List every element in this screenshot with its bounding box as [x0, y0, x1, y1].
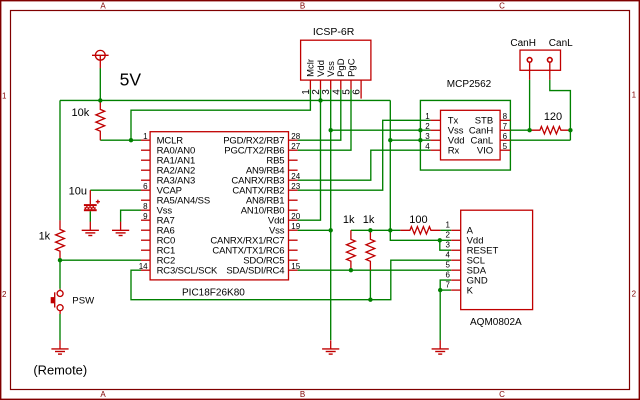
- ground (capacitor): [89, 222, 91, 231]
- PIC right pin row 13 SDO/RC5: [289, 259, 298, 261]
- svg-text:1k: 1k: [343, 214, 355, 226]
- svg-text:1k: 1k: [363, 214, 375, 226]
- svg-text:100: 100: [409, 214, 427, 226]
- svg-text:23: 23: [291, 182, 300, 191]
- PIC left pin row 1 MCLR: [141, 139, 150, 141]
- wire SDA net: [298, 269, 452, 271]
- node AQM K: [438, 288, 442, 292]
- svg-text:15: 15: [291, 262, 300, 271]
- svg-text:10u: 10u: [69, 185, 87, 197]
- node CanH: [527, 128, 531, 132]
- svg-text:A: A: [100, 390, 106, 399]
- PIC left pin row 2 RA0/AN0: [141, 149, 150, 151]
- PIC left pin row 11 RC0: [141, 239, 150, 241]
- svg-text:2: 2: [632, 290, 637, 299]
- PIC right pin row 1 PGD/RX2/RB7: [289, 139, 298, 141]
- MCP left pin 2 Vss: [431, 129, 441, 131]
- node RC2/PSW: [58, 258, 62, 262]
- IC U MCP2562: [441, 110, 501, 160]
- ICSP pin 6: [360, 80, 362, 99]
- svg-text:PgC: PgC: [346, 58, 357, 77]
- PIC right pin row 5 CANRX/RB3: [289, 179, 298, 181]
- wire PIC pin23 to MCP Tx: [298, 120, 431, 190]
- svg-text:8: 8: [143, 202, 148, 211]
- MCP right pin 5 VIO: [500, 149, 510, 151]
- svg-text:6: 6: [352, 89, 363, 95]
- svg-text:1k: 1k: [39, 231, 51, 243]
- MCP right pin 7 CanH: [500, 129, 510, 131]
- svg-text:20: 20: [291, 212, 300, 221]
- wire Vdd to AQM pin2: [390, 230, 451, 240]
- svg-text:PSW: PSW: [72, 296, 95, 307]
- svg-text:1: 1: [143, 132, 148, 141]
- svg-text:19: 19: [291, 222, 300, 231]
- svg-text:4: 4: [425, 142, 430, 151]
- PIC left pin row 6 VCAP: [141, 189, 150, 191]
- wire 1k2 bottom to SCL: [369, 270, 371, 299]
- PIC right pin row 12 CANTX/TX1/RC6: [289, 249, 298, 251]
- svg-text:1: 1: [446, 221, 451, 230]
- PIC right pin row 8 AN10/RB0: [289, 209, 298, 211]
- node pullup rail B: [388, 228, 392, 232]
- wire AQM K: [440, 289, 451, 291]
- svg-text:120: 120: [544, 111, 562, 123]
- PIC left pin row 10 RA6: [141, 229, 150, 231]
- MCP left pin 1 Tx: [431, 119, 441, 121]
- svg-text:28: 28: [291, 132, 300, 141]
- ground (PSW): [59, 340, 61, 349]
- PIC right pin row 4 AN9/RB4: [289, 169, 298, 171]
- node CanL: [568, 128, 572, 132]
- PIC left pin row 3 RA1/AN1: [141, 159, 150, 161]
- wire 5V rail: [60, 99, 390, 101]
- ICSP pin 1: [309, 80, 311, 89]
- connector ICSP-6R: [301, 40, 371, 80]
- node SDA: [349, 268, 353, 272]
- wire PIC pin19 Vss: [298, 229, 331, 231]
- wire loop around MCP2562: [420, 100, 510, 170]
- PIC left pin row 12 RC1: [141, 249, 150, 251]
- resistor 1k (switch pull): [56, 220, 65, 260]
- PIC left pin row 5 RA3/AN3: [141, 179, 150, 181]
- svg-text:4: 4: [446, 250, 451, 259]
- svg-text:B: B: [300, 390, 305, 399]
- wire Vdd rail to 100 resistor: [351, 229, 401, 231]
- PIC left pin row 13 RC2: [141, 259, 150, 261]
- wire PIC pin24 to MCP Rx: [298, 150, 431, 180]
- AQM pin 7 K: [451, 289, 461, 291]
- ground (PIC Vss): [120, 222, 122, 231]
- MCP right pin 6 CanL: [500, 139, 510, 141]
- node AQM Vdd: [438, 238, 442, 242]
- svg-text:CanH: CanH: [510, 38, 536, 49]
- svg-text:2: 2: [446, 231, 451, 240]
- wire PSW to ground: [59, 311, 61, 314]
- connector CanH CanL: [520, 50, 561, 70]
- MCP left pin 4 Rx: [431, 149, 441, 151]
- wire CanH down: [529, 80, 531, 130]
- svg-text:2: 2: [425, 122, 430, 131]
- resistor 100: [400, 227, 440, 234]
- svg-text:(Remote): (Remote): [33, 363, 87, 378]
- IC U PIC18F26K80: [150, 132, 288, 280]
- svg-text:24: 24: [291, 172, 300, 181]
- svg-text:7: 7: [503, 122, 508, 131]
- wire 100 resistor to AQM pin1: [440, 229, 451, 231]
- svg-text:1: 1: [632, 90, 637, 99]
- node Vss B: [418, 128, 422, 132]
- PIC right pin row 7 AN8/RB1: [289, 199, 298, 201]
- svg-text:CanL: CanL: [549, 38, 573, 49]
- AQM pin 6 GND: [451, 279, 461, 281]
- svg-text:RC3/SCL/SCK: RC3/SCL/SCK: [157, 266, 218, 277]
- capacitor 10u: [84, 190, 100, 211]
- power symbol 5V: [92, 50, 109, 68]
- ICSP pin 2: [320, 80, 322, 89]
- wire rail left drop to 1k: [59, 100, 61, 220]
- ICSP pin 3: [330, 80, 332, 89]
- wire MCP CanH to 120: [510, 129, 532, 131]
- ICSP pin 4: [340, 80, 342, 89]
- svg-text:ICSP-6R: ICSP-6R: [313, 26, 355, 38]
- wire 1k to PIC RC2: [60, 259, 141, 261]
- node SCL: [368, 298, 372, 302]
- PIC left pin row 4 RA2/AN2: [141, 169, 150, 171]
- IC U AQM0802A: [461, 210, 533, 309]
- MCP right pin 8 STB: [500, 119, 510, 121]
- svg-text:A: A: [100, 2, 106, 11]
- PIC right pin row 10 Vss: [289, 229, 298, 231]
- wire AQM GND down: [440, 280, 451, 340]
- PIC right pin row 14 SDA/SDI/RC4: [289, 269, 298, 271]
- wire Vss to MCP2562 pin2: [331, 129, 431, 131]
- wire to PSW: [59, 260, 61, 289]
- wire 5V drop: [99, 68, 101, 100]
- resistor 1k SDA pullup: [347, 230, 356, 270]
- resistor 10k: [96, 100, 105, 140]
- svg-text:SDA/SDI/RC4: SDA/SDI/RC4: [226, 266, 284, 277]
- ground (AQM): [439, 340, 441, 349]
- wire AQM RESET branch: [440, 240, 451, 250]
- svg-text:Rx: Rx: [448, 146, 460, 157]
- ground (ICSP Vss): [330, 340, 332, 349]
- PIC right pin row 6 CANTX/RB2: [289, 189, 298, 191]
- svg-text:C: C: [499, 2, 505, 11]
- wire Vdd riser: [389, 100, 391, 230]
- PIC right pin row 2 PGC/TX2/RB6: [289, 149, 298, 151]
- wire CanL down: [550, 80, 571, 140]
- wire ICSP Vss down to ground: [330, 89, 332, 340]
- svg-text:5: 5: [446, 260, 451, 269]
- node Vss A: [329, 128, 333, 132]
- svg-text:6: 6: [503, 132, 508, 141]
- svg-text:9: 9: [143, 212, 148, 221]
- node 5V/10k: [98, 98, 102, 102]
- wire VCAP to capacitor: [90, 189, 141, 191]
- svg-text:K: K: [467, 285, 474, 296]
- svg-text:6: 6: [143, 182, 148, 191]
- switch PSW: [51, 291, 63, 311]
- svg-text:PIC18F26K80: PIC18F26K80: [182, 288, 245, 299]
- AQM pin 5 SDA: [451, 269, 461, 271]
- svg-text:1: 1: [425, 112, 430, 121]
- wire CanL to MCP: [510, 139, 570, 141]
- MCP left pin 3 Vdd: [431, 139, 441, 141]
- svg-text:MCP2562: MCP2562: [447, 79, 492, 90]
- svg-text:3: 3: [425, 132, 430, 141]
- svg-text:5V: 5V: [120, 69, 142, 89]
- svg-text:8: 8: [503, 112, 508, 121]
- node Vss C: [329, 228, 333, 232]
- PIC left pin row 14 RC3/SCL/SCK: [141, 269, 150, 271]
- svg-text:7: 7: [446, 280, 451, 289]
- svg-text:1: 1: [2, 92, 7, 101]
- wire ICSP Vdd to PIC pin20: [298, 89, 321, 220]
- svg-text:14: 14: [139, 262, 148, 271]
- wire 10k to MCLR: [100, 139, 141, 141]
- wire PIC pin8 Vss to ground: [121, 210, 141, 222]
- svg-text:VIO: VIO: [477, 146, 493, 157]
- AQM pin 3 RESET: [451, 249, 461, 251]
- AQM pin 2 Vdd: [451, 239, 461, 241]
- wire Vdd to MCP2562 pin3: [390, 139, 430, 141]
- wire ICSP PgC to PIC pin27: [298, 89, 351, 150]
- PIC left pin row 9 RA7: [141, 219, 150, 221]
- svg-text:10k: 10k: [72, 107, 90, 119]
- svg-text:27: 27: [291, 142, 300, 151]
- svg-text:3: 3: [446, 241, 451, 250]
- resistor 120: [530, 127, 570, 134]
- svg-text:C: C: [499, 390, 505, 399]
- svg-text:6: 6: [446, 270, 451, 279]
- node 5V/ICSP Vdd: [318, 98, 322, 102]
- AQM pin 4 SCL: [451, 259, 461, 261]
- svg-text:AQM0802A: AQM0802A: [470, 317, 522, 328]
- CanL pin: [548, 58, 553, 63]
- PIC left pin row 8 Vss: [141, 209, 150, 211]
- node Vdd A: [388, 138, 392, 142]
- wire MCLR to ICSP pin1: [131, 89, 310, 140]
- wire ICSP PgD to PIC pin28: [298, 89, 341, 140]
- wire capacitor to ground: [89, 211, 91, 222]
- node MCLR: [129, 138, 133, 142]
- node pullup rail A: [368, 228, 372, 232]
- PIC right pin row 9 Vdd: [289, 219, 298, 221]
- AQM pin 1 A: [451, 229, 461, 231]
- node Vdd B: [418, 138, 422, 142]
- PIC right pin row 11 CANRX/RX1/RC7: [289, 239, 298, 241]
- svg-text:5: 5: [503, 142, 508, 151]
- ICSP pin 5: [350, 80, 352, 89]
- wire SCL net: [131, 260, 451, 300]
- resistor 1k SCL pullup: [366, 230, 375, 270]
- svg-text:2: 2: [2, 290, 7, 299]
- svg-text:B: B: [300, 2, 305, 11]
- PIC left pin row 7 RA5/AN4/SS: [141, 199, 150, 201]
- CanH pin: [527, 58, 532, 63]
- PIC right pin row 3 RB5: [289, 159, 298, 161]
